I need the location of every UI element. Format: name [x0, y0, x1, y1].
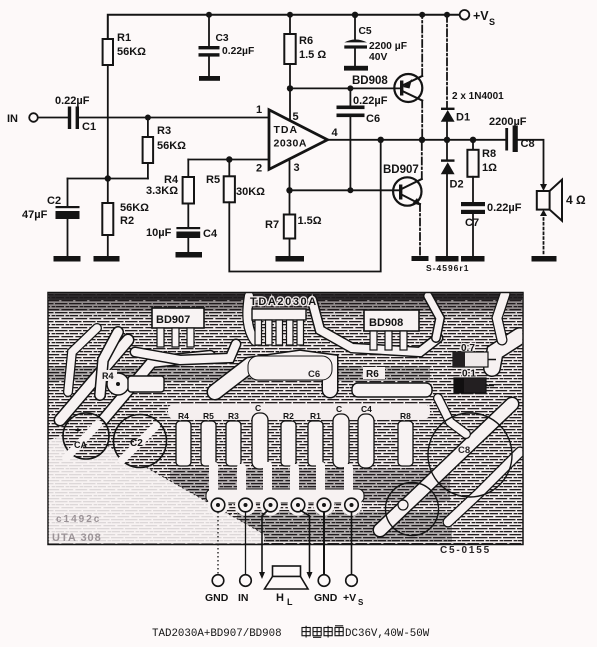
svg-text:3: 3 [294, 162, 300, 174]
wire BD908 collector to output (dash-dot) [421, 101, 423, 140]
svg-text:BD908: BD908 [369, 317, 403, 329]
svg-text:C2: C2 [47, 195, 61, 207]
resistor R2 [102, 179, 149, 257]
wire BD908 emitter to rail (dash-dot) [421, 15, 423, 76]
wire pin3 [289, 159, 291, 191]
svg-text:GND: GND [205, 592, 229, 604]
PCB trace BD908 loop [312, 300, 438, 352]
capacitor C8 2200uF [489, 116, 535, 152]
svg-text:UTA 308: UTA 308 [52, 532, 102, 544]
PCB trace right edge blob [492, 336, 520, 368]
svg-text:R6: R6 [366, 369, 379, 380]
PCB trace center blob [215, 356, 332, 392]
svg-text:BD907: BD907 [156, 314, 190, 326]
ground C7 [461, 256, 485, 262]
node out-D [444, 137, 450, 143]
wire pad5 to GND terminal [323, 512, 325, 574]
wire D1 column from rail (dash-dot) [446, 15, 448, 108]
wire pin2 [188, 159, 269, 161]
PCB dark mid band [48, 366, 430, 381]
terminal +Vs [460, 9, 495, 27]
PCB part R4 jumper [100, 370, 164, 392]
svg-text:+: + [75, 426, 81, 437]
PCB trace left vertical [100, 332, 118, 395]
resistor R1 [103, 32, 147, 65]
resistor R4 [146, 160, 194, 228]
PCB trace right mid diagonal [380, 404, 512, 530]
svg-text:R8: R8 [400, 411, 411, 421]
svg-text:R6: R6 [299, 35, 313, 47]
PCB trace left outer curve [68, 328, 97, 392]
terminal GND right [314, 575, 338, 604]
svg-text:IN: IN [238, 592, 249, 604]
svg-text:R3: R3 [228, 411, 239, 421]
node input-R3 [145, 115, 151, 121]
svg-text:C8: C8 [458, 445, 470, 456]
svg-text:R2: R2 [283, 411, 294, 421]
wire pad1 to GND terminal (dotted) [217, 512, 219, 574]
wire input [38, 117, 68, 119]
svg-text:CA: CA [74, 440, 87, 450]
svg-text:C: C [336, 404, 342, 414]
svg-text:R3: R3 [157, 125, 171, 137]
PCB trace right mid connector [438, 398, 466, 434]
svg-text:2 x 1N4001: 2 x 1N4001 [452, 91, 504, 102]
speaker LS 4ohm [537, 180, 586, 254]
svg-text:56KΩ: 56KΩ [157, 140, 186, 152]
PCB part diode D1 body [453, 343, 496, 367]
svg-text:C1: C1 [82, 121, 96, 133]
resistor R3 [143, 118, 187, 179]
PCB board photo [48, 293, 523, 545]
svg-text:1Ω: 1Ω [482, 162, 497, 174]
svg-text:+V: +V [473, 9, 489, 23]
svg-text:R5: R5 [203, 411, 214, 421]
op-amp U1 TDA2030A [256, 104, 339, 175]
svg-text:56KΩ: 56KΩ [120, 202, 149, 214]
ground C4 [176, 252, 203, 258]
wire HL bracket right [300, 510, 310, 572]
PCB resistor row [176, 413, 413, 469]
PCB part BD908 package [364, 310, 419, 350]
wire top supply rail [108, 15, 460, 65]
capacitor C3 0.22uF [199, 15, 255, 76]
capacitor C1 0.22uF [55, 95, 96, 133]
svg-text:30KΩ: 30KΩ [236, 186, 265, 198]
ground C5 [344, 66, 368, 71]
svg-text:H: H [276, 592, 284, 604]
svg-text:4: 4 [332, 127, 339, 139]
svg-text:2200 µF: 2200 µF [369, 41, 407, 52]
diode D2 [441, 140, 464, 256]
PCB part C2 can [114, 415, 167, 468]
node rail-D1 [444, 12, 450, 18]
ground C2 [54, 256, 81, 262]
svg-text:S: S [489, 17, 495, 27]
svg-text:C: C [255, 403, 261, 413]
svg-text:S: S [358, 598, 364, 607]
svg-text:TDA: TDA [274, 124, 299, 136]
PCB trace mid horizontal light band [168, 404, 430, 419]
svg-text:C3: C3 [216, 33, 229, 44]
pad HL2 [291, 498, 305, 512]
svg-text:IN: IN [7, 113, 18, 125]
caption CJK glyphs [302, 626, 343, 638]
PCB trace across cans [66, 424, 156, 460]
PCB part TDA2030A [250, 296, 318, 345]
svg-text:C2: C2 [130, 438, 143, 449]
svg-text:3.3KΩ: 3.3KΩ [146, 185, 178, 197]
PCB part small can [386, 483, 439, 536]
svg-text:2030A: 2030A [274, 138, 307, 150]
svg-text:R7: R7 [265, 219, 279, 231]
wire HL bracket left [262, 510, 268, 572]
net label S-4596 [426, 263, 469, 273]
PCB trace right second diagonal [448, 452, 520, 522]
svg-text:GND: GND [314, 592, 338, 604]
terminal IN bottom [238, 575, 251, 604]
PCB label C5-0155 [440, 545, 491, 556]
wire pad2 to IN terminal [245, 512, 247, 574]
caption right [345, 628, 430, 640]
node out-Q [419, 137, 425, 143]
node A junction [105, 175, 111, 181]
svg-text:2200µF: 2200µF [489, 116, 527, 128]
svg-text:2: 2 [256, 163, 262, 175]
wire BD908 base [290, 87, 400, 89]
pad GND1 [211, 498, 225, 512]
svg-text:C4: C4 [361, 404, 372, 414]
PCB pad small circle left [107, 373, 129, 395]
node rail-C5 [352, 12, 358, 18]
svg-text:10µF: 10µF [146, 227, 172, 239]
svg-text:S-4596r1: S-4596r1 [426, 263, 469, 273]
svg-text:40V: 40V [369, 52, 387, 63]
PCB trace upper-left diagonal 1 [60, 340, 128, 420]
speaker terminal HL [259, 566, 313, 607]
terminal +Vs bottom [343, 575, 364, 607]
PCB trace pad fingers [208, 462, 363, 516]
svg-text:R8: R8 [482, 148, 496, 160]
node out-fb [378, 137, 384, 143]
caption left [152, 628, 282, 640]
ground R7 [276, 256, 305, 262]
PCB trace upper-left diagonal 2 [88, 356, 210, 438]
svg-text:4 Ω: 4 Ω [566, 193, 586, 207]
transistor Q2 BD908 [352, 74, 422, 102]
terminal GND left [205, 575, 229, 604]
PCB trace above pads bus [206, 489, 364, 503]
wire BD907 base [290, 189, 400, 191]
PCB part C1 can [63, 413, 109, 459]
PCB part BD907 package [152, 308, 204, 347]
svg-text:56KΩ: 56KΩ [117, 46, 146, 58]
svg-text:1: 1 [256, 104, 262, 116]
pad +Vs [345, 498, 359, 512]
transistor Q1 BD907 [383, 164, 422, 206]
svg-text:C6: C6 [366, 113, 380, 125]
svg-text:R4: R4 [178, 411, 189, 421]
svg-text:D2: D2 [450, 179, 464, 191]
svg-text:1.5Ω: 1.5Ω [298, 215, 322, 227]
svg-text:1.5 Ω: 1.5 Ω [299, 49, 326, 61]
pad HL1 [264, 498, 278, 512]
svg-text:0.22µF: 0.22µF [487, 202, 522, 214]
node R6-pin5-Q2base [287, 85, 293, 91]
capacitor C4 10uF [146, 227, 218, 252]
diode D1 [441, 91, 504, 140]
PCB trace top-right curve [497, 294, 505, 340]
svg-text:D1: D1 [456, 112, 470, 124]
PCB trace top vertical into TDA [247, 296, 255, 341]
capacitor C7 0.22uF [461, 202, 522, 256]
resistor R8 [467, 140, 497, 202]
PCB can labels [74, 426, 143, 450]
node C6-base wire [347, 187, 353, 193]
wire output line [328, 139, 506, 141]
svg-text:R1: R1 [117, 32, 131, 44]
node pin2-R5 [226, 156, 232, 162]
pad GND2 [317, 498, 331, 512]
PCB trace right upper [428, 296, 440, 338]
PCB part R6 bar [352, 367, 432, 397]
node out-R8 [470, 137, 476, 143]
wire BD907 emitter to ground (dash-dot) [419, 204, 421, 256]
PCB part C8 can [428, 413, 512, 497]
svg-text:0.22µF: 0.22µF [55, 95, 90, 107]
wire input to pin1 [79, 117, 269, 119]
PCB part diode D2 body [454, 369, 494, 394]
wire R5 feedback loop to output [229, 140, 380, 272]
svg-text:c1492c: c1492c [56, 514, 101, 525]
ground C3 [199, 76, 220, 81]
svg-text:C5: C5 [359, 26, 372, 37]
svg-text:C5-0155: C5-0155 [440, 545, 491, 556]
PCB faint silk text [52, 514, 102, 544]
node rail-Q2 [419, 12, 425, 18]
resistor R5 [206, 160, 265, 203]
ground R2 [94, 256, 120, 262]
resistor R6 [284, 15, 326, 120]
svg-text:0.22µF: 0.22µF [353, 95, 388, 107]
wire node A horizontal [68, 178, 148, 180]
wire R1 bottom to node A [107, 65, 109, 179]
svg-text:5: 5 [293, 111, 299, 123]
svg-text:R4: R4 [102, 371, 114, 381]
ground D2 [436, 256, 459, 262]
svg-text:BD907: BD907 [383, 164, 419, 176]
PCB label C6 [308, 369, 320, 380]
PCB dark lower band [170, 468, 450, 502]
PCB dark top band [48, 293, 523, 318]
node rail-R6 [287, 12, 293, 18]
ground speaker [532, 256, 557, 262]
capacitor C6 0.22uF [337, 85, 388, 190]
PCB resistor row labels [178, 403, 411, 421]
pad IN [239, 498, 253, 512]
PCB dark bottom band [237, 512, 452, 542]
svg-text:47µF: 47µF [22, 209, 48, 221]
node pin3 junction [286, 187, 292, 193]
PCB trace under BD907 [135, 344, 236, 360]
wire pad6 to +Vs terminal [351, 512, 353, 574]
svg-text:TDA2030A: TDA2030A [250, 296, 318, 308]
svg-text:TAD2030A+BD907/BD908: TAD2030A+BD907/BD908 [152, 628, 282, 640]
capacitor C5 2200uF 40V [344, 15, 407, 66]
terminal IN [7, 113, 38, 125]
ground BD907 [412, 256, 429, 261]
svg-text:C6: C6 [308, 369, 320, 380]
node rail-C3 [206, 12, 212, 18]
wire C8 to speaker [518, 140, 544, 185]
svg-text:C4: C4 [203, 228, 218, 240]
svg-text:R2: R2 [120, 215, 134, 227]
wire BD907 collector to output (dash-dot) [421, 140, 423, 179]
svg-text:R5: R5 [206, 174, 220, 186]
svg-text:R1: R1 [310, 411, 321, 421]
capacitor C2 47uF [22, 179, 80, 257]
svg-text:L: L [287, 597, 293, 607]
svg-text:0.22µF: 0.22µF [222, 46, 254, 57]
svg-text:C7: C7 [465, 217, 479, 229]
svg-text:+V: +V [343, 592, 356, 604]
svg-text:BD908: BD908 [352, 75, 388, 87]
resistor R7 [265, 190, 322, 256]
svg-text:DC36V,40W-50W: DC36V,40W-50W [345, 628, 430, 640]
PCB bottom-left white copper zone [48, 432, 264, 544]
